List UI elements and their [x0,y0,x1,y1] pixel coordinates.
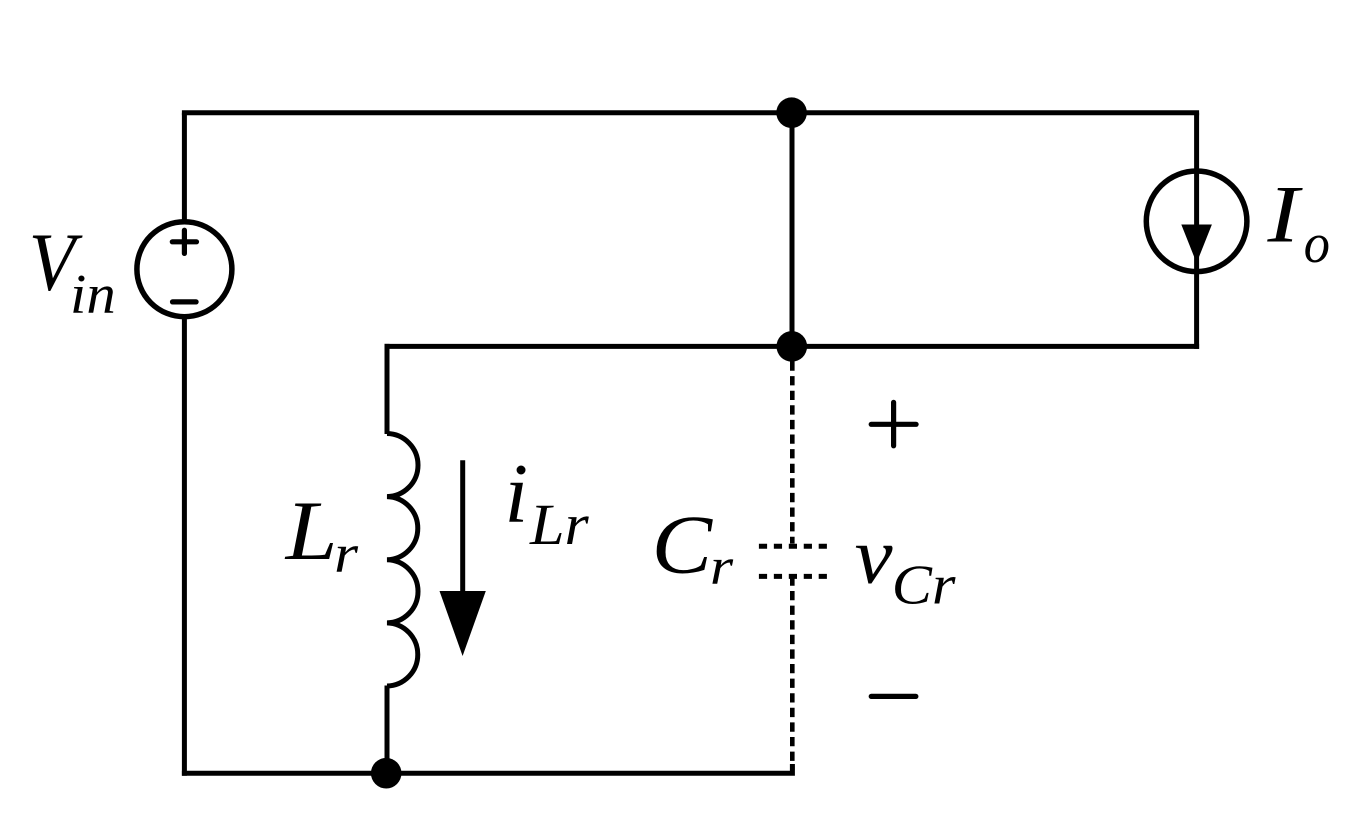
current source arrowhead [1181,225,1212,264]
svg-text:r: r [334,523,359,583]
svg-text:I: I [1266,169,1303,260]
current arrow i_Lr line [460,460,465,593]
voltage source plus terminal mark [172,230,196,253]
wire: left vertical through V_in [182,113,187,776]
node B junction dot (middle) [777,331,808,362]
wire: inductor top lead [385,344,390,434]
wire: middle vertical between node A and node B [790,113,795,347]
svg-text:C: C [652,500,714,592]
node C junction dot (bottom) [371,758,402,789]
svg-text:r: r [710,538,734,596]
current source Io circle [1146,171,1247,272]
inductor Lr coil [387,434,418,687]
svg-text:i: i [505,447,529,541]
wire: inductor bottom lead [385,686,390,774]
wire: top horizontal from V_in to I_o branch [182,110,1199,115]
svg-text:v: v [855,511,893,600]
svg-text:in: in [70,264,116,326]
capacitor Cr top plate (dashed) [759,544,827,549]
voltage source minus terminal mark [173,299,197,304]
dashed wire: node B down to capacitor Cr top plate [790,362,795,544]
svg-text:Cr: Cr [892,555,956,617]
wire: right vertical through I_o [1194,113,1199,349]
capacitor Cr bottom plate (dashed) [759,574,827,579]
voltage source Vin circle [137,222,232,317]
current arrow i_Lr head [440,591,486,656]
dashed wire: capacitor Cr bottom plate down to bottom wire [790,576,795,770]
wire: bottom horizontal with end stub [182,764,793,773]
capacitor minus polarity sign [871,694,916,699]
capacitor plus polarity sign [871,402,916,445]
svg-text:Lr: Lr [529,492,589,557]
svg-text:L: L [285,484,338,578]
node A junction dot (top) [776,97,807,128]
wire: middle horizontal at node B level [385,344,1200,349]
svg-text:o: o [1304,213,1330,275]
